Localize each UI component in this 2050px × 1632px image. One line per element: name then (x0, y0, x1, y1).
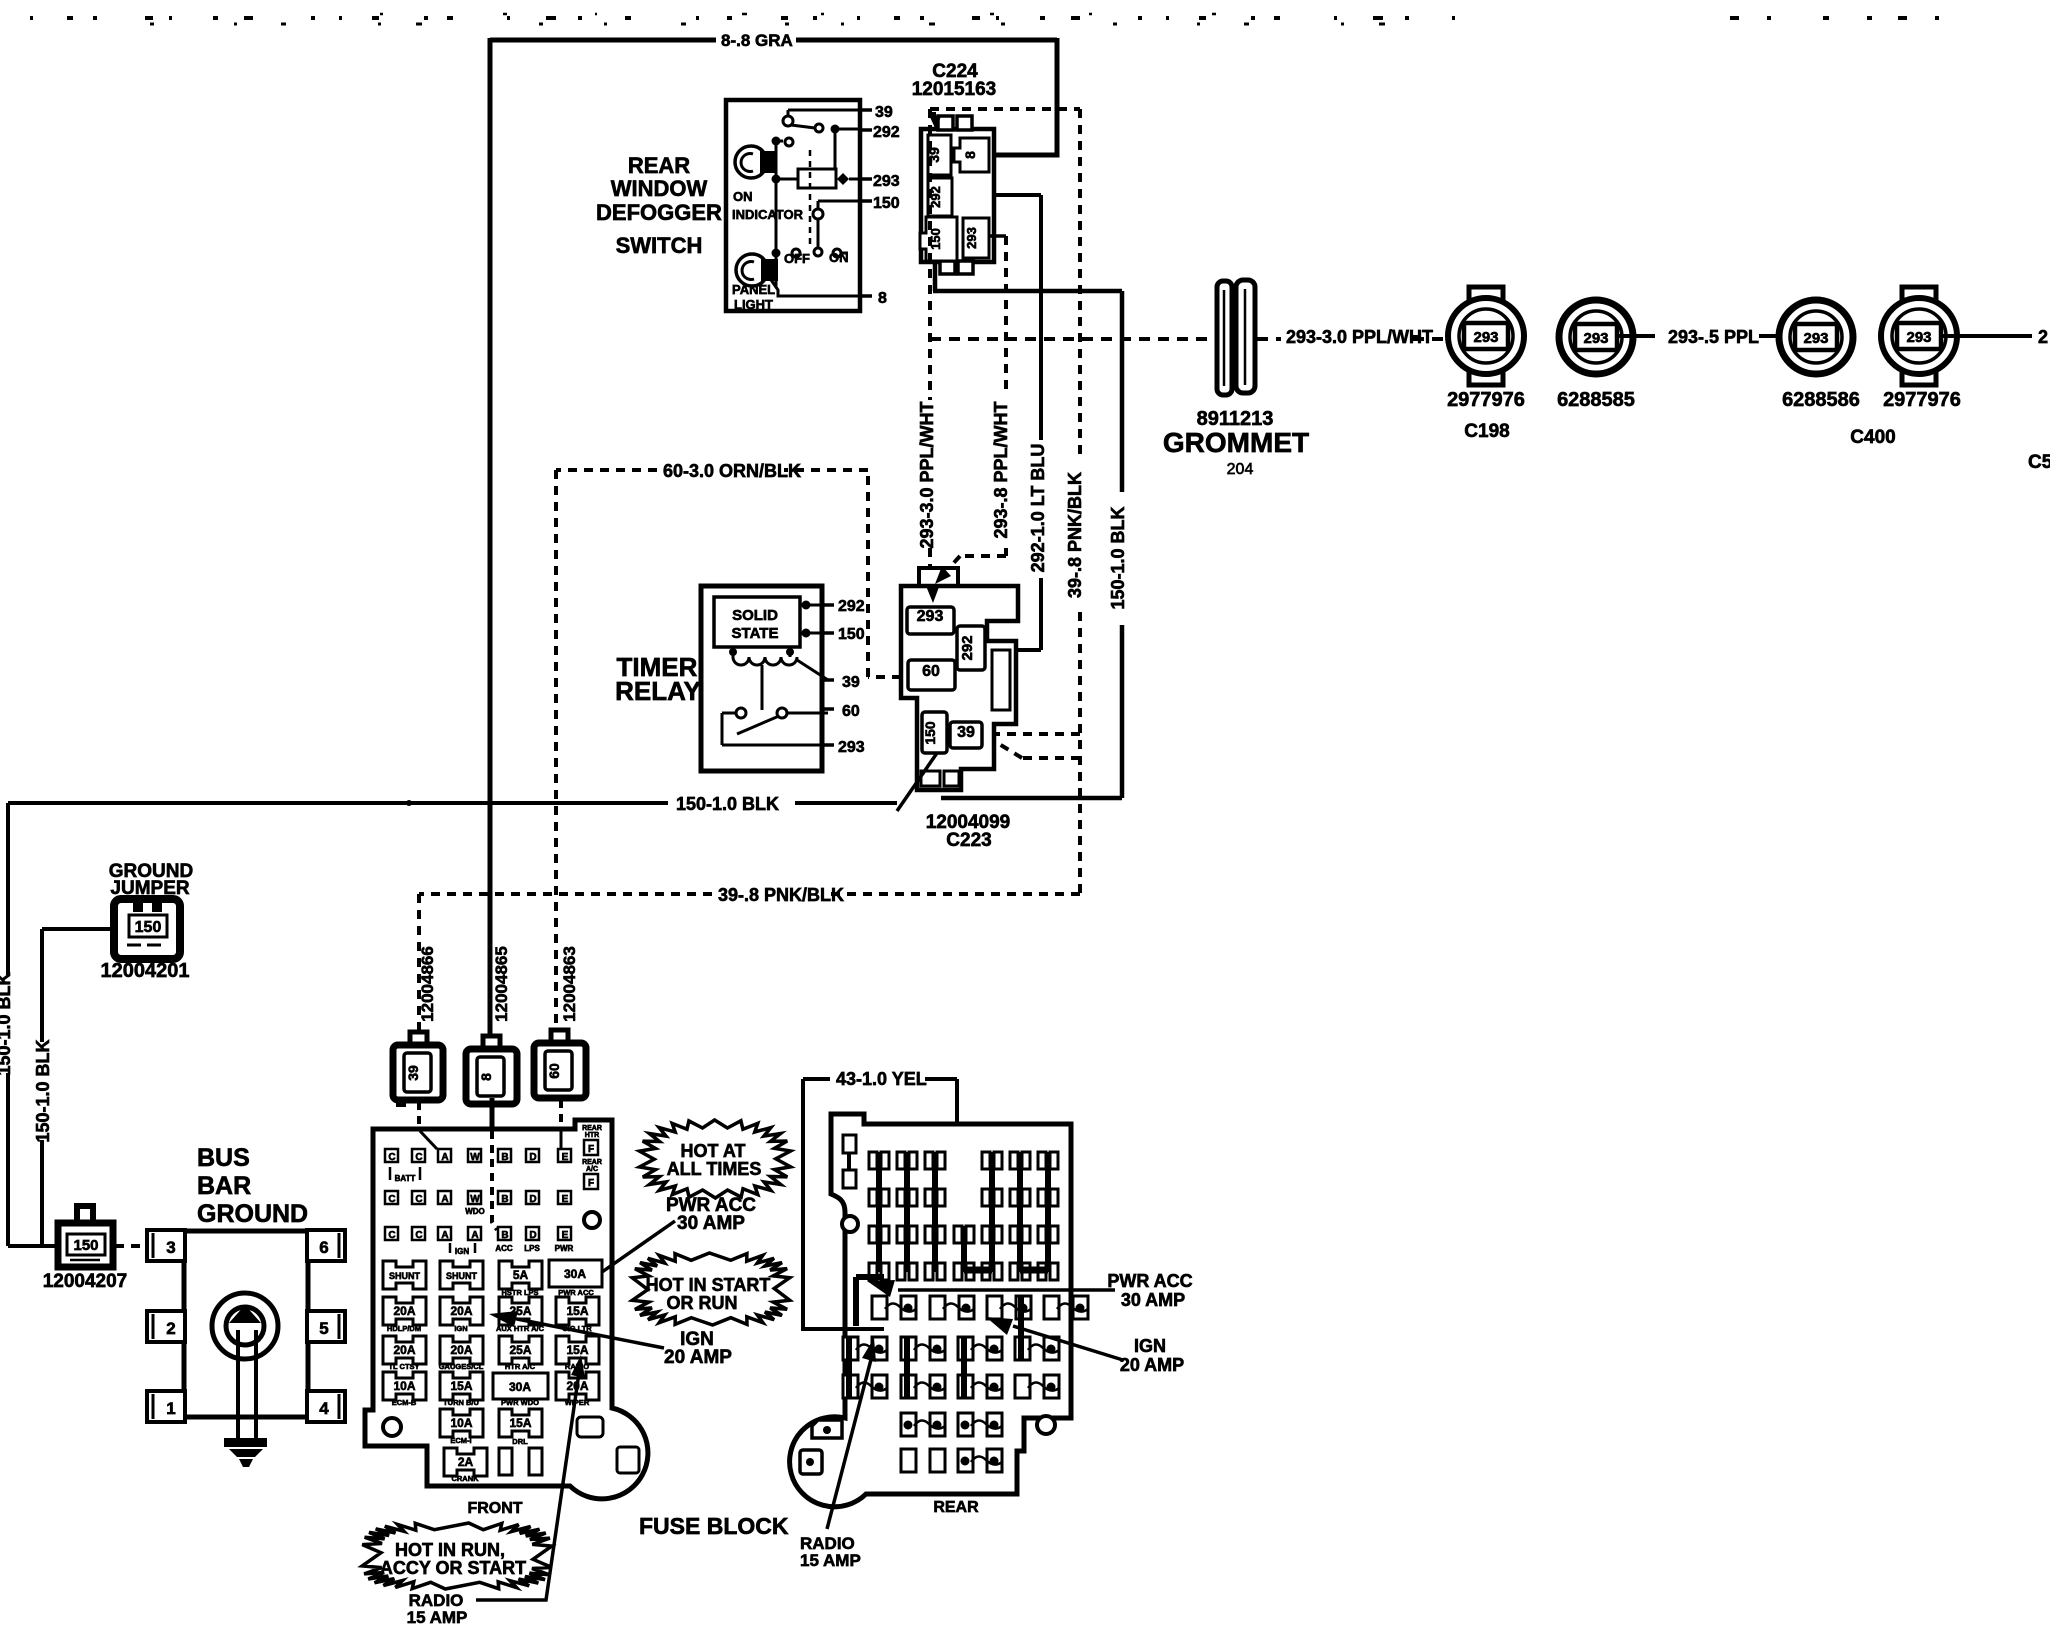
wire 60-3.0 ORN/BLK dashed (556, 470, 901, 1031)
starburst HOT IN START OR RUN (632, 1253, 789, 1325)
svg-text:HOT AT: HOT AT (681, 1141, 746, 1161)
svg-text:WINDOW: WINDOW (611, 176, 708, 201)
svg-text:GROMMET: GROMMET (1163, 427, 1309, 458)
C224 pin 293 (963, 218, 989, 258)
svg-text:W: W (470, 1152, 480, 1163)
svg-text:ACCY OR START: ACCY OR START (380, 1558, 526, 1578)
svg-text:4: 4 (319, 1399, 329, 1418)
svg-text:SOLID: SOLID (732, 607, 778, 624)
C223 pin 39 (950, 722, 982, 748)
svg-text:10A: 10A (393, 1379, 415, 1393)
starburst HOT IN RUN ACCY OR START (362, 1523, 552, 1589)
svg-text:HOT IN START: HOT IN START (646, 1275, 771, 1295)
svg-text:6: 6 (319, 1238, 328, 1257)
svg-text:W: W (470, 1194, 480, 1205)
svg-text:C: C (415, 1152, 422, 1163)
svg-text:REAR: REAR (628, 153, 690, 178)
svg-text:150: 150 (838, 626, 865, 643)
wire 293-.5 PPL (1618, 334, 1655, 338)
C224 pin 292 (928, 178, 952, 216)
svg-text:A/C: A/C (586, 1166, 598, 1173)
svg-text:F: F (588, 1144, 594, 1155)
svg-text:15A: 15A (566, 1304, 588, 1318)
svg-text:293: 293 (873, 173, 900, 190)
svg-text:8-.8 GRA: 8-.8 GRA (721, 31, 793, 50)
svg-text:CRANK: CRANK (451, 1474, 479, 1483)
svg-text:8: 8 (962, 151, 978, 159)
svg-text:292: 292 (838, 598, 865, 615)
wire 293-.8 PPL/WHT dashed (941, 236, 1006, 577)
connector C198 2977976 (1448, 287, 1524, 385)
svg-text:F: F (588, 1178, 594, 1189)
svg-text:SHUNT: SHUNT (389, 1271, 421, 1281)
svg-text:BUS: BUS (197, 1144, 250, 1172)
rear window defogger switch box (726, 100, 860, 311)
svg-text:RELAY: RELAY (615, 676, 701, 706)
svg-text:STATE: STATE (732, 625, 779, 642)
wire 150-1.0 BLK horizontal (8, 801, 897, 805)
svg-text:30A: 30A (509, 1380, 531, 1394)
svg-text:15A: 15A (566, 1343, 588, 1357)
dashed actuator link inside switch (809, 150, 812, 248)
bus bar pin 1 (147, 1391, 185, 1422)
svg-text:INDICATOR: INDICATOR (732, 207, 804, 222)
bus bar pin 2 (147, 1311, 185, 1342)
svg-text:PWR ACC: PWR ACC (1107, 1271, 1192, 1291)
svg-text:C: C (415, 1194, 422, 1205)
wire C224 pin 293 stub (989, 234, 1006, 238)
svg-text:FRONT: FRONT (467, 1500, 522, 1517)
svg-text:GAUGES/CL: GAUGES/CL (439, 1362, 484, 1371)
terminal letter row 2 (385, 1191, 398, 1204)
svg-text:293-.8 PPL/WHT: 293-.8 PPL/WHT (991, 401, 1011, 538)
bus bar pin 5 (307, 1311, 345, 1342)
fuse row E (440, 1409, 483, 1437)
svg-text:LIGHT: LIGHT (734, 297, 773, 312)
svg-text:TL CTSY: TL CTSY (388, 1362, 419, 1371)
svg-text:WIPER: WIPER (565, 1398, 590, 1407)
svg-text:C400: C400 (1850, 427, 1895, 448)
relay internal wiring (800, 605, 828, 633)
connector 2977976 C400 (1881, 287, 1957, 385)
svg-text:60: 60 (922, 663, 940, 680)
svg-text:39-.8 PNK/BLK: 39-.8 PNK/BLK (1065, 472, 1085, 598)
svg-text:D: D (529, 1230, 536, 1241)
svg-text:15 AMP: 15 AMP (800, 1551, 861, 1570)
rear block pad rows (872, 1296, 887, 1319)
switch internal wiring (767, 110, 860, 288)
fuse SHUNT row (383, 1261, 426, 1289)
svg-text:8: 8 (878, 290, 887, 307)
svg-text:293-.5 PPL: 293-.5 PPL (1668, 327, 1759, 347)
svg-text:BAR: BAR (197, 1172, 251, 1200)
svg-text:150: 150 (873, 195, 900, 212)
svg-text:DEFOGGER: DEFOGGER (596, 200, 722, 225)
svg-text:ACC: ACC (495, 1244, 513, 1253)
svg-text:PANEL: PANEL (732, 282, 775, 297)
svg-text:6288586: 6288586 (1782, 389, 1860, 411)
svg-text:1: 1 (166, 1399, 175, 1418)
svg-text:A: A (471, 1230, 478, 1241)
svg-text:2: 2 (2038, 327, 2048, 347)
svg-text:C: C (415, 1230, 422, 1241)
svg-text:2A: 2A (458, 1455, 474, 1469)
svg-text:10A: 10A (450, 1416, 472, 1430)
C224 pin 8 (954, 138, 989, 172)
wire 293-3.0 PPL/WHT dashed vertical (928, 109, 932, 588)
svg-text:3: 3 (166, 1238, 175, 1257)
svg-text:12004865: 12004865 (492, 946, 511, 1022)
svg-text:2977976: 2977976 (1447, 389, 1525, 411)
svg-text:293: 293 (1583, 330, 1608, 347)
C224 pin 39 (928, 135, 951, 175)
svg-text:REAR: REAR (582, 1125, 602, 1132)
svg-text:SHUNT: SHUNT (446, 1271, 478, 1281)
svg-text:20A: 20A (393, 1343, 415, 1357)
wire C224 pin 150 to 150-1.0 BLK (933, 261, 1122, 291)
svg-text:39: 39 (842, 674, 860, 691)
callout diagonal from 150-1.0 BLK wire to C223 pin 150 (897, 753, 937, 811)
svg-text:REAR: REAR (582, 1159, 602, 1166)
svg-text:150: 150 (135, 919, 162, 936)
svg-text:DRL: DRL (512, 1437, 528, 1446)
svg-text:30A: 30A (564, 1267, 586, 1281)
svg-text:20 AMP: 20 AMP (1120, 1355, 1184, 1375)
bus bar pin 4 (307, 1391, 345, 1422)
svg-text:ECM-B: ECM-B (392, 1398, 417, 1407)
wire 150-1.0 BLK left vertical (8, 803, 58, 1246)
wire 292-1.0 LT BLU vertical (1016, 195, 1041, 650)
svg-text:B: B (501, 1152, 508, 1163)
svg-text:60: 60 (842, 703, 860, 720)
svg-text:12004866: 12004866 (418, 946, 437, 1022)
wire C224 pin 292 to 292-1.0 LT BLU (994, 193, 1041, 197)
svg-text:HOT IN RUN,: HOT IN RUN, (395, 1540, 505, 1560)
indicator lamp (on indicator) (735, 146, 767, 178)
wire 293-3.0 PPL/WHT to grommet (930, 337, 1447, 341)
svg-text:A: A (441, 1194, 448, 1205)
svg-text:8: 8 (478, 1073, 494, 1081)
ground symbol (224, 1438, 267, 1447)
bus bar center stud (212, 1293, 278, 1359)
terminal letter row 3 (385, 1227, 398, 1240)
svg-text:292-1.0 LT BLU: 292-1.0 LT BLU (1028, 444, 1048, 573)
fuse row F (444, 1448, 487, 1476)
arrowheads of 293 dashed wires into C223 (935, 566, 951, 584)
svg-text:25A: 25A (509, 1343, 531, 1357)
svg-text:293: 293 (964, 227, 979, 249)
svg-text:ALL TIMES: ALL TIMES (667, 1159, 762, 1179)
wire 39-.8 PNK/BLK dashed horizontal (419, 894, 1080, 1031)
connector 6288585 (1559, 300, 1633, 374)
solid state module (714, 597, 800, 647)
bus bar pin 6 (307, 1230, 345, 1261)
svg-text:15A: 15A (509, 1416, 531, 1430)
svg-text:OR RUN: OR RUN (667, 1293, 738, 1313)
dashed jumper C224 top (930, 109, 1080, 126)
svg-text:SWITCH: SWITCH (616, 233, 703, 258)
wire ground jumper to bus bar (42, 929, 114, 1246)
svg-text:43-1.0 YEL: 43-1.0 YEL (836, 1069, 927, 1089)
svg-text:2: 2 (166, 1319, 175, 1338)
svg-text:ON: ON (733, 189, 753, 204)
svg-text:2977976: 2977976 (1883, 389, 1961, 411)
wires entering fuse block (492, 1131, 497, 1230)
svg-text:15A: 15A (450, 1379, 472, 1393)
timer relay box (701, 586, 822, 771)
wire 39 branch to C223 pin 39 (996, 734, 1080, 758)
relay coil (733, 647, 790, 657)
connector C223 12004099 (919, 568, 958, 590)
svg-text:293: 293 (1473, 329, 1498, 346)
rear block links (964, 1267, 1048, 1274)
svg-text:WDO: WDO (465, 1207, 485, 1216)
svg-text:15 AMP: 15 AMP (407, 1608, 468, 1627)
svg-text:PWR WDO: PWR WDO (501, 1398, 539, 1407)
svg-text:150: 150 (73, 1237, 98, 1254)
svg-text:20 AMP: 20 AMP (664, 1347, 732, 1368)
svg-text:39: 39 (875, 104, 893, 121)
wire vertical from 8-.8 GRA to C224 pin 8 (992, 38, 1057, 155)
svg-text:C: C (388, 1152, 395, 1163)
svg-text:12004207: 12004207 (43, 1271, 128, 1292)
svg-text:C198: C198 (1464, 421, 1509, 442)
front fuse block outline (365, 1120, 648, 1499)
fuse PWR ACC 30A (549, 1260, 602, 1287)
svg-text:20A: 20A (450, 1343, 472, 1357)
fuse row C (383, 1336, 426, 1364)
grommet 8911213 (1217, 281, 1232, 395)
svg-text:39: 39 (405, 1065, 421, 1081)
svg-text:IGN: IGN (1134, 1336, 1166, 1356)
svg-text:C: C (388, 1194, 395, 1205)
svg-text:D: D (529, 1152, 536, 1163)
rear block lobe terminals (812, 1420, 842, 1438)
svg-text:OFF: OFF (784, 251, 810, 266)
svg-text:C5: C5 (2028, 452, 2050, 473)
C223 pin 292 (957, 626, 985, 670)
svg-text:5: 5 (319, 1319, 328, 1338)
svg-text:REAR: REAR (933, 1499, 979, 1516)
wire 8-.8 GRA from defogger switch pin 8 to C224 (490, 38, 1057, 43)
rear fuse block outline (790, 1114, 1071, 1507)
svg-text:HTR A/C: HTR A/C (505, 1362, 536, 1371)
svg-text:E: E (562, 1152, 569, 1163)
svg-text:293: 293 (1803, 330, 1828, 347)
svg-text:TURN B/U: TURN B/U (443, 1398, 479, 1407)
svg-text:B: B (501, 1194, 508, 1205)
svg-text:GROUND: GROUND (197, 1200, 308, 1228)
svg-text:A: A (441, 1152, 448, 1163)
wire 293 to right edge (1941, 334, 2032, 338)
rear block terminal columns (876, 1152, 882, 1272)
svg-text:20A: 20A (393, 1304, 415, 1318)
svg-text:LPS: LPS (524, 1244, 540, 1253)
resistor inside switch (798, 169, 836, 188)
svg-text:IGN: IGN (454, 1324, 467, 1333)
svg-text:292: 292 (873, 124, 900, 141)
wire 39-.8 PNK/BLK dashed vertical (1078, 109, 1082, 894)
svg-text:60: 60 (546, 1063, 562, 1079)
svg-text:12004201: 12004201 (101, 960, 190, 982)
C223 pin 60 (908, 660, 955, 690)
svg-text:PWR: PWR (555, 1244, 574, 1253)
BATT bracket (390, 1167, 420, 1180)
svg-text:ECM-I: ECM-I (450, 1436, 471, 1445)
svg-text:293: 293 (1906, 329, 1931, 346)
svg-text:BATT: BATT (395, 1174, 416, 1183)
svg-text:5A: 5A (513, 1268, 529, 1282)
svg-text:150-1.0 BLK: 150-1.0 BLK (33, 1039, 53, 1142)
svg-text:AUX HTR A/C: AUX HTR A/C (496, 1324, 545, 1333)
svg-text:30 AMP: 30 AMP (677, 1213, 745, 1234)
C223 pin 150 (922, 712, 947, 753)
svg-text:A: A (441, 1230, 448, 1241)
connector 150 12004207 (77, 1206, 93, 1226)
svg-text:60-3.0 ORN/BLK: 60-3.0 ORN/BLK (663, 461, 801, 481)
svg-text:FUSE BLOCK: FUSE BLOCK (639, 1513, 789, 1539)
fuse row D (383, 1372, 426, 1400)
panel light lamp (736, 254, 768, 286)
svg-text:150: 150 (922, 721, 938, 745)
C224 pin 150 (920, 217, 957, 261)
wire 43-1.0 YEL (803, 1079, 957, 1329)
svg-text:6288585: 6288585 (1557, 389, 1635, 411)
svg-text:B: B (501, 1230, 508, 1241)
svg-text:30 AMP: 30 AMP (1121, 1290, 1185, 1310)
svg-text:150-1.0 BLK: 150-1.0 BLK (0, 972, 14, 1075)
svg-text:293: 293 (917, 608, 944, 625)
wire vertical 8 circuit down to inline connector 8 (488, 38, 493, 1037)
svg-text:C223: C223 (946, 830, 991, 851)
wire stubs below inline connectors (417, 1102, 421, 1126)
svg-text:12015163: 12015163 (912, 79, 997, 100)
svg-text:HDLP/DM: HDLP/DM (387, 1324, 421, 1333)
dashed link to bus bar pin 3 (115, 1244, 146, 1248)
svg-text:E: E (562, 1194, 569, 1205)
svg-text:ON: ON (829, 250, 849, 265)
svg-text:HTR: HTR (585, 1132, 599, 1139)
svg-text:293-3.0 PPL/WHT: 293-3.0 PPL/WHT (1286, 327, 1433, 347)
wire 150-1.0 BLK vertical right (941, 291, 1122, 798)
terminal letter row 1 (385, 1149, 398, 1162)
bus bar pin 3 (147, 1230, 185, 1261)
svg-text:20A: 20A (450, 1304, 472, 1318)
rear block left holder (843, 1135, 856, 1153)
svg-text:39: 39 (957, 724, 975, 741)
svg-text:150-1.0 BLK: 150-1.0 BLK (676, 794, 779, 814)
connector 6288586 C400 (1779, 300, 1853, 374)
svg-text:293: 293 (838, 739, 865, 756)
C223 pin 293 (907, 607, 954, 634)
relay contact (736, 708, 746, 718)
svg-text:12004863: 12004863 (560, 946, 579, 1022)
svg-text:C: C (388, 1230, 395, 1241)
svg-text:IGN: IGN (455, 1247, 469, 1256)
scan noise band top (30, 16, 1455, 20)
svg-text:D: D (529, 1194, 536, 1205)
fuse row B (383, 1297, 426, 1325)
starburst HOT AT ALL TIMES (639, 1120, 790, 1198)
svg-text:150-1.0 BLK: 150-1.0 BLK (1108, 506, 1128, 609)
svg-text:E: E (562, 1230, 569, 1241)
svg-text:39-.8 PNK/BLK: 39-.8 PNK/BLK (718, 885, 844, 905)
svg-text:292: 292 (959, 635, 976, 660)
switch pin stubs and pin labels 39 292 293 150 8 (860, 110, 872, 296)
svg-text:204: 204 (1227, 461, 1254, 478)
svg-text:293-3.0 PPL/WHT: 293-3.0 PPL/WHT (917, 401, 937, 548)
relay pin stubs 292 150 39 60 293 (822, 605, 834, 745)
